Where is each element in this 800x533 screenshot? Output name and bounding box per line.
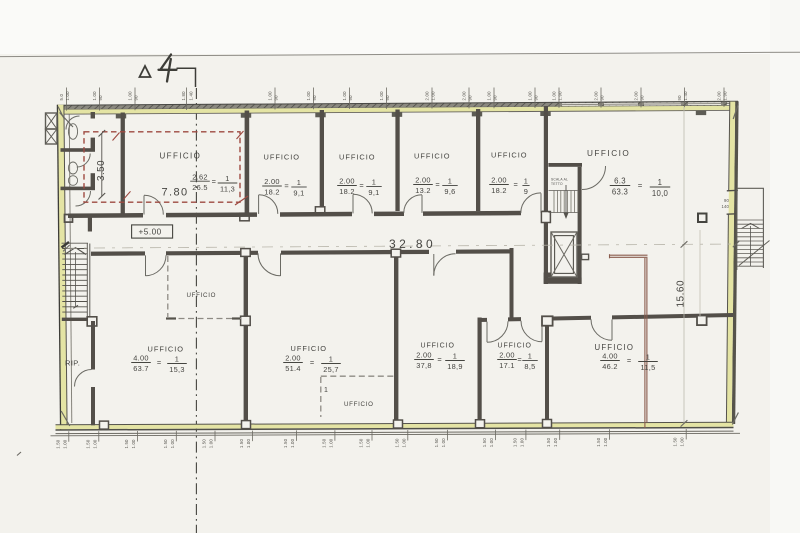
door arc office3 <box>352 195 354 214</box>
svg-text:1.00: 1.00 <box>268 91 273 101</box>
svg-text:2.62: 2.62 <box>192 172 208 181</box>
svg-text:63.7: 63.7 <box>133 364 149 373</box>
svg-text:=: = <box>310 358 314 367</box>
svg-text:1: 1 <box>297 178 301 187</box>
bathroom door arc lower <box>77 154 91 168</box>
svg-text:1.50: 1.50 <box>434 438 439 448</box>
door arc big office <box>582 166 606 190</box>
roof stair arrow <box>565 185 567 217</box>
svg-text:1: 1 <box>329 355 333 364</box>
red dashed boundary rectangle <box>84 132 240 202</box>
brown pencil wall vertical <box>644 258 646 428</box>
svg-text:8,5: 8,5 <box>524 362 535 371</box>
door arc B5 <box>611 320 613 341</box>
roof stair hatching <box>553 191 555 213</box>
svg-text:90: 90 <box>600 95 605 101</box>
svg-text:=: = <box>638 181 643 190</box>
pencil line x700 <box>699 230 701 316</box>
bottom-right corner diagonal <box>732 413 738 425</box>
svg-text:1.50: 1.50 <box>283 438 288 448</box>
svg-text:18,9: 18,9 <box>447 362 463 371</box>
level box +5.00 <box>132 225 173 238</box>
shaft south wall <box>544 278 582 284</box>
shaft east wall <box>578 167 582 284</box>
svg-text:15.60: 15.60 <box>676 280 687 308</box>
lighter paper right margin <box>770 0 800 533</box>
svg-text:1: 1 <box>324 387 328 394</box>
wall below staircase <box>62 318 87 321</box>
RIP east wall lower <box>91 387 95 425</box>
svg-text:1.00: 1.00 <box>379 91 384 101</box>
svg-text:1.00: 1.00 <box>342 91 347 101</box>
svg-text:=: = <box>627 356 631 365</box>
dashed sub-room B2 vertical <box>320 377 322 417</box>
section marker triangle <box>140 66 151 77</box>
svg-text:=: = <box>437 355 441 364</box>
east stair up arrow <box>742 224 760 229</box>
svg-text:4.00: 4.00 <box>133 354 149 363</box>
svg-text:UFFICIO: UFFICIO <box>421 343 455 350</box>
left exterior wall <box>57 105 67 430</box>
svg-text:2.00: 2.00 <box>462 91 467 101</box>
corridor south wall with door openings <box>91 251 145 255</box>
svg-text:1.00: 1.00 <box>553 437 558 447</box>
svg-text:UFFICIO: UFFICIO <box>595 343 635 352</box>
partition wall P7 (B1/B2) <box>244 253 248 422</box>
pillar box bottom wall x480 <box>476 420 485 428</box>
top wall pillar block x545.5 <box>540 111 550 116</box>
wall C (lobby west wall) <box>510 248 514 321</box>
bathroom corner diagonal door line <box>60 113 74 128</box>
right exterior wall <box>732 101 739 424</box>
svg-text:2.00: 2.00 <box>634 91 639 101</box>
svg-text:90: 90 <box>274 95 279 101</box>
top-right corner diagonal <box>733 105 738 120</box>
svg-text:7.80: 7.80 <box>162 187 189 199</box>
svg-text:1.00: 1.00 <box>170 439 175 449</box>
top wall window glazing segments <box>562 103 598 106</box>
partition wall P8 (B2/B3) <box>394 252 398 422</box>
svg-text:1.00: 1.00 <box>489 438 494 448</box>
svg-text:1.00: 1.00 <box>246 439 251 449</box>
top wall pillar block x121 <box>116 114 126 119</box>
junction box P2-corridor <box>240 213 249 221</box>
red slash top-right <box>237 131 244 139</box>
svg-text:9: 9 <box>524 187 528 196</box>
partition wall P3 (office2/office3) <box>320 110 324 212</box>
svg-text:1.00: 1.00 <box>603 437 608 447</box>
wall D (room B4 north wall) <box>478 318 487 322</box>
small check mark lower left <box>17 452 21 456</box>
svg-text:1.00: 1.00 <box>487 91 492 101</box>
shaft west wall <box>544 106 548 284</box>
bathroom wall vertical seg 2 <box>91 173 95 188</box>
svg-text:1.00: 1.00 <box>441 438 446 448</box>
dashed partition near B1/B2 <box>167 256 169 317</box>
svg-text:32.80: 32.80 <box>389 237 436 251</box>
door arc office4 <box>421 195 423 213</box>
svg-text:UFFICIO: UFFICIO <box>587 149 630 158</box>
svg-text:1.40: 1.40 <box>683 91 688 101</box>
svg-text:90: 90 <box>348 95 353 101</box>
svg-text:1.50: 1.50 <box>482 438 487 448</box>
top wall pillar block x477 <box>472 112 482 117</box>
partition wall P10 (B4/B5) <box>545 322 549 421</box>
svg-text:1.50: 1.50 <box>202 439 207 449</box>
svg-text:=: = <box>359 181 363 190</box>
svg-text:1.90: 1.90 <box>723 91 728 101</box>
bathroom wall stub top <box>91 112 95 119</box>
svg-text:1.50: 1.50 <box>596 437 601 447</box>
svg-text:1.00: 1.00 <box>328 438 333 448</box>
door arc room B2 <box>280 253 282 276</box>
svg-text:1.00: 1.00 <box>209 439 214 449</box>
svg-text:1.00: 1.00 <box>680 437 685 447</box>
corridor west stub wall <box>88 214 92 232</box>
svg-text:2.00: 2.00 <box>717 91 722 101</box>
small box at corridor west end <box>65 215 73 223</box>
svg-text:1.00: 1.00 <box>528 91 533 101</box>
left wall inner wythe line <box>69 114 72 423</box>
svg-text:=: = <box>513 180 517 189</box>
svg-text:1.50: 1.50 <box>359 438 364 448</box>
svg-text:=: = <box>212 177 216 186</box>
svg-text:18.2: 18.2 <box>339 187 355 196</box>
svg-text:1.50: 1.50 <box>673 437 678 447</box>
bottom exterior wall <box>56 422 734 429</box>
svg-text:1: 1 <box>658 178 663 187</box>
pillar box bottom wall x246 <box>242 421 251 429</box>
svg-text:1.00: 1.00 <box>92 439 97 449</box>
junction box P7 top <box>241 249 250 257</box>
svg-text:1.00: 1.00 <box>431 91 436 101</box>
svg-text:1.50: 1.50 <box>239 439 244 449</box>
window dimension ticks above top wall <box>66 88 68 111</box>
east stair cut diagonal <box>739 241 770 266</box>
RIP door arc <box>75 370 92 387</box>
top exterior wall dark band <box>57 101 738 109</box>
top exterior wall yellow band <box>57 106 738 115</box>
svg-text:2.00: 2.00 <box>264 177 280 186</box>
svg-text:90: 90 <box>468 95 473 101</box>
right wall inner line lower part <box>726 214 728 424</box>
svg-text:9,1: 9,1 <box>368 188 379 197</box>
svg-text:25,7: 25,7 <box>323 365 339 374</box>
svg-text:1.00: 1.00 <box>65 91 70 101</box>
dim line 32.80 horizontal <box>66 244 736 248</box>
red slash bottom-right <box>235 196 248 205</box>
svg-text:TETTO: TETTO <box>551 182 563 186</box>
svg-text:1: 1 <box>453 352 457 361</box>
bathroom door arc anteroom <box>76 191 91 206</box>
svg-text:10,0: 10,0 <box>652 189 669 198</box>
svg-text:6.3: 6.3 <box>614 177 626 186</box>
svg-text:=: = <box>157 358 161 367</box>
svg-text:1.00: 1.00 <box>62 439 67 449</box>
svg-text:9,1: 9,1 <box>293 189 304 198</box>
door arc office1 <box>143 196 145 215</box>
left staircase up arrow <box>65 248 87 255</box>
svg-text:UFFICIO: UFFICIO <box>148 345 185 354</box>
svg-text:2.00: 2.00 <box>416 351 432 360</box>
junction box P3-corridor <box>315 207 324 215</box>
bottom-left corner diagonal <box>61 411 70 426</box>
svg-text:90: 90 <box>640 95 645 101</box>
door arc B4 east <box>541 321 543 342</box>
junction box below staircase <box>87 317 97 326</box>
svg-text:UFFICIO: UFFICIO <box>264 153 301 162</box>
svg-text:15,3: 15,3 <box>169 365 185 374</box>
svg-text:1.00: 1.00 <box>92 91 97 101</box>
svg-text:1: 1 <box>175 355 179 364</box>
svg-text:37,8: 37,8 <box>416 361 432 370</box>
svg-text:3.50: 3.50 <box>96 160 107 181</box>
bottom dim baseline <box>51 433 741 436</box>
wc bowl lower cell 1 <box>68 162 77 174</box>
small tab east of shaft <box>582 254 589 259</box>
east exterior stair steps <box>737 219 764 221</box>
svg-text:2.00: 2.00 <box>499 351 515 360</box>
svg-text:18.2: 18.2 <box>264 188 280 197</box>
partition wall P5 (office4/office5) <box>476 109 480 211</box>
door arc room B1 <box>145 255 147 276</box>
section number 4 <box>159 55 177 82</box>
svg-text:=: = <box>284 182 288 191</box>
junction box P8 top <box>391 249 400 257</box>
svg-text:5.0: 5.0 <box>59 94 64 101</box>
svg-text:2.00: 2.00 <box>425 91 430 101</box>
svg-text:13.2: 13.2 <box>415 186 431 195</box>
top wall pillar block x397 <box>392 112 402 117</box>
top wall pillar block x320.5 <box>315 113 325 118</box>
svg-text:1: 1 <box>524 177 528 186</box>
svg-text:1.00: 1.00 <box>366 438 371 448</box>
svg-text:2.00: 2.00 <box>415 176 431 185</box>
svg-text:1.00: 1.00 <box>131 439 136 449</box>
dashed partition horizontal B1 <box>169 318 241 320</box>
pillar box bottom wall x398 <box>394 420 403 428</box>
left staircase corner tick <box>62 242 70 248</box>
pillar box bottom wall x104 <box>100 421 109 429</box>
corridor north wall with door openings <box>68 213 143 218</box>
dashed sub-room B2 horizontal <box>321 375 394 377</box>
pillar box on B5 north wall <box>697 316 707 326</box>
svg-text:=: = <box>517 355 521 364</box>
svg-text:1.50: 1.50 <box>124 439 129 449</box>
svg-text:51.4: 51.4 <box>285 364 301 373</box>
svg-text:UFFICIO: UFFICIO <box>344 401 374 408</box>
left staircase right rail <box>86 244 88 318</box>
svg-text:1: 1 <box>528 352 532 361</box>
svg-text:1.50: 1.50 <box>55 439 60 449</box>
svg-text:UFFICIO: UFFICIO <box>160 152 202 161</box>
svg-text:2.00: 2.00 <box>491 176 507 185</box>
svg-text:1: 1 <box>646 353 650 362</box>
svg-text:RIP.: RIP. <box>65 359 80 368</box>
window dimension ticks below bottom wall <box>68 431 70 442</box>
door arc office2 <box>258 195 260 214</box>
junction box shaft west <box>541 212 550 223</box>
svg-text:4.00: 4.00 <box>602 352 618 361</box>
door arc room B3 <box>433 254 435 276</box>
svg-text:1.00: 1.00 <box>290 438 295 448</box>
left staircase top edge <box>62 242 89 244</box>
svg-text:140: 140 <box>722 204 730 209</box>
svg-text:18.2: 18.2 <box>491 186 507 195</box>
RIP east wall upper <box>91 321 95 370</box>
svg-text:11,3: 11,3 <box>220 185 235 194</box>
svg-text:1: 1 <box>448 177 452 186</box>
svg-text:90: 90 <box>312 95 317 101</box>
svg-text:UFFICIO: UFFICIO <box>491 151 528 160</box>
svg-text:17.1: 17.1 <box>499 361 515 370</box>
svg-text:90: 90 <box>385 95 390 101</box>
svg-text:UFFICIO: UFFICIO <box>187 292 217 299</box>
roof-stair room north wall <box>548 163 582 167</box>
top page rule <box>0 52 800 56</box>
red slash bottom-left <box>124 191 131 199</box>
svg-text:11,5: 11,5 <box>640 363 655 372</box>
top-left corner diagonal <box>58 107 65 120</box>
lighter paper above top rule <box>0 0 800 54</box>
pillar square in big office <box>698 214 707 223</box>
svg-text:1.50: 1.50 <box>394 438 399 448</box>
elevator cab with X brace <box>551 232 577 277</box>
svg-text:2.00: 2.00 <box>339 177 355 186</box>
svg-text:1: 1 <box>372 178 376 187</box>
svg-text:1: 1 <box>225 174 229 183</box>
dim line 3.50 vertical <box>101 133 103 196</box>
svg-text:90: 90 <box>493 95 498 101</box>
east exterior stair outline <box>737 188 764 270</box>
wc bowl upper cell <box>68 124 77 140</box>
svg-text:90: 90 <box>534 95 539 101</box>
pillar box P10 top <box>542 316 553 325</box>
partition wall P2 (office1/office2) <box>245 111 250 215</box>
svg-text:1.00: 1.00 <box>519 438 524 448</box>
brown pencil wall horizontal <box>610 254 648 256</box>
bathroom wall horizontal 1 <box>61 148 96 152</box>
svg-text:90: 90 <box>98 95 103 101</box>
left staircase steps <box>62 248 87 250</box>
svg-text:1.00: 1.00 <box>401 438 406 448</box>
dim line 15.60 vertical <box>683 107 685 424</box>
svg-text:90: 90 <box>134 95 139 101</box>
svg-text:+5.00: +5.00 <box>139 228 162 237</box>
svg-text:46.2: 46.2 <box>602 362 618 371</box>
door arc B4 west <box>486 322 488 343</box>
svg-text:26.5: 26.5 <box>192 183 208 192</box>
door arc office5 <box>540 193 542 213</box>
section leader line <box>177 68 196 87</box>
wc bowl lower cell 2 <box>68 176 77 186</box>
red slash top-left <box>113 133 120 141</box>
partition wall P9 (B3/B4) <box>478 318 482 421</box>
svg-text:1.50: 1.50 <box>163 439 168 449</box>
stair door jamb ticks in right wall <box>727 189 738 192</box>
svg-text:1.80: 1.80 <box>181 91 186 101</box>
svg-text:63.3: 63.3 <box>612 188 628 197</box>
svg-text:1.50: 1.50 <box>546 437 551 447</box>
svg-text:90: 90 <box>724 198 730 203</box>
bathroom door arc upper <box>66 116 80 130</box>
partition wall P4 (office3/office4) <box>395 110 399 212</box>
svg-text:1.50: 1.50 <box>85 439 90 449</box>
top wall pillar block x246 <box>241 113 251 118</box>
junction box on P7 <box>241 316 251 325</box>
bathroom wall horizontal 2 <box>61 187 96 191</box>
svg-text:1.50: 1.50 <box>321 438 326 448</box>
svg-text:2.00: 2.00 <box>594 91 599 101</box>
svg-text:90: 90 <box>677 95 682 101</box>
north-west shaft boxes with X <box>46 113 58 129</box>
svg-text:UFFICIO: UFFICIO <box>414 152 451 161</box>
svg-text:1.00: 1.00 <box>128 91 133 101</box>
svg-text:1.40: 1.40 <box>189 91 194 101</box>
svg-text:1.50: 1.50 <box>512 438 517 448</box>
svg-text:2.00: 2.00 <box>285 354 301 363</box>
svg-text:1.00: 1.00 <box>552 91 557 101</box>
svg-text:UFFICIO: UFFICIO <box>291 344 328 353</box>
svg-text:1.00: 1.00 <box>306 91 311 101</box>
bathroom wall vertical seg 1 <box>91 138 95 151</box>
room B5 north wall <box>553 316 591 321</box>
svg-text:UFFICIO: UFFICIO <box>498 343 532 350</box>
svg-text:1.90: 1.90 <box>558 91 563 101</box>
top wall pillar block x701 <box>696 111 706 116</box>
svg-text:9,6: 9,6 <box>444 187 455 196</box>
section cut dash-dot line <box>195 88 197 533</box>
pillar box bottom wall x547 <box>543 419 552 427</box>
svg-text:=: = <box>435 180 439 189</box>
partition wall P1 (bathroom/office1) <box>121 113 125 214</box>
svg-text:UFFICIO: UFFICIO <box>339 153 376 162</box>
